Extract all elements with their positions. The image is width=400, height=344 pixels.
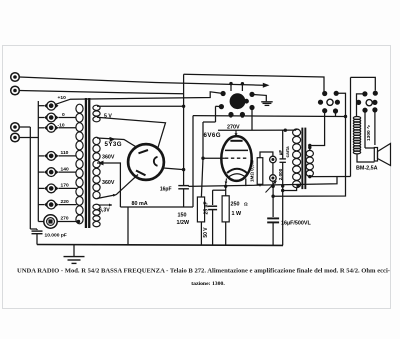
svg-text:110: 110 xyxy=(61,150,69,156)
svg-text:250: 250 xyxy=(231,202,240,208)
svg-text:140: 140 xyxy=(61,166,69,172)
svg-text:80 mA: 80 mA xyxy=(132,201,148,207)
svg-text:170: 170 xyxy=(61,183,69,189)
svg-text:50 V: 50 V xyxy=(203,227,209,238)
svg-text:16pF: 16pF xyxy=(160,187,172,193)
svg-text:1 W: 1 W xyxy=(232,211,242,217)
svg-text:UNDA RADIO - Mod. R 54/2 BASSA: UNDA RADIO - Mod. R 54/2 BASSA FREQUENZA… xyxy=(17,268,390,275)
svg-text:6V6G: 6V6G xyxy=(204,132,221,139)
svg-text:tazione: 1300.: tazione: 1300. xyxy=(191,281,225,287)
svg-text:1MΩ 0,5W: 1MΩ 0,5W xyxy=(250,159,255,182)
svg-text:-10: -10 xyxy=(58,122,65,128)
svg-text:360V: 360V xyxy=(102,155,115,161)
svg-text:µF: µF xyxy=(278,150,283,156)
svg-text:220: 220 xyxy=(61,199,69,205)
svg-text:carta: carta xyxy=(285,146,290,157)
svg-text:1/2W: 1/2W xyxy=(177,220,190,226)
svg-text:1300 ∿: 1300 ∿ xyxy=(366,125,372,141)
svg-text:25 µF: 25 µF xyxy=(203,202,209,215)
svg-text:BM-2,5A: BM-2,5A xyxy=(356,166,378,172)
svg-text:270: 270 xyxy=(61,215,69,221)
svg-text:+10: +10 xyxy=(58,95,67,101)
svg-text:10.000 pF: 10.000 pF xyxy=(45,232,67,238)
svg-text:0: 0 xyxy=(62,112,65,118)
svg-text:2.000: 2.000 xyxy=(278,168,283,180)
svg-text:360V: 360V xyxy=(102,180,115,186)
svg-text:5Y3G: 5Y3G xyxy=(105,141,122,148)
svg-text:16µF/500VL: 16µF/500VL xyxy=(281,220,311,226)
svg-text:6,3V: 6,3V xyxy=(99,208,110,214)
svg-text:Ω: Ω xyxy=(244,202,248,207)
svg-text:150: 150 xyxy=(178,213,187,219)
